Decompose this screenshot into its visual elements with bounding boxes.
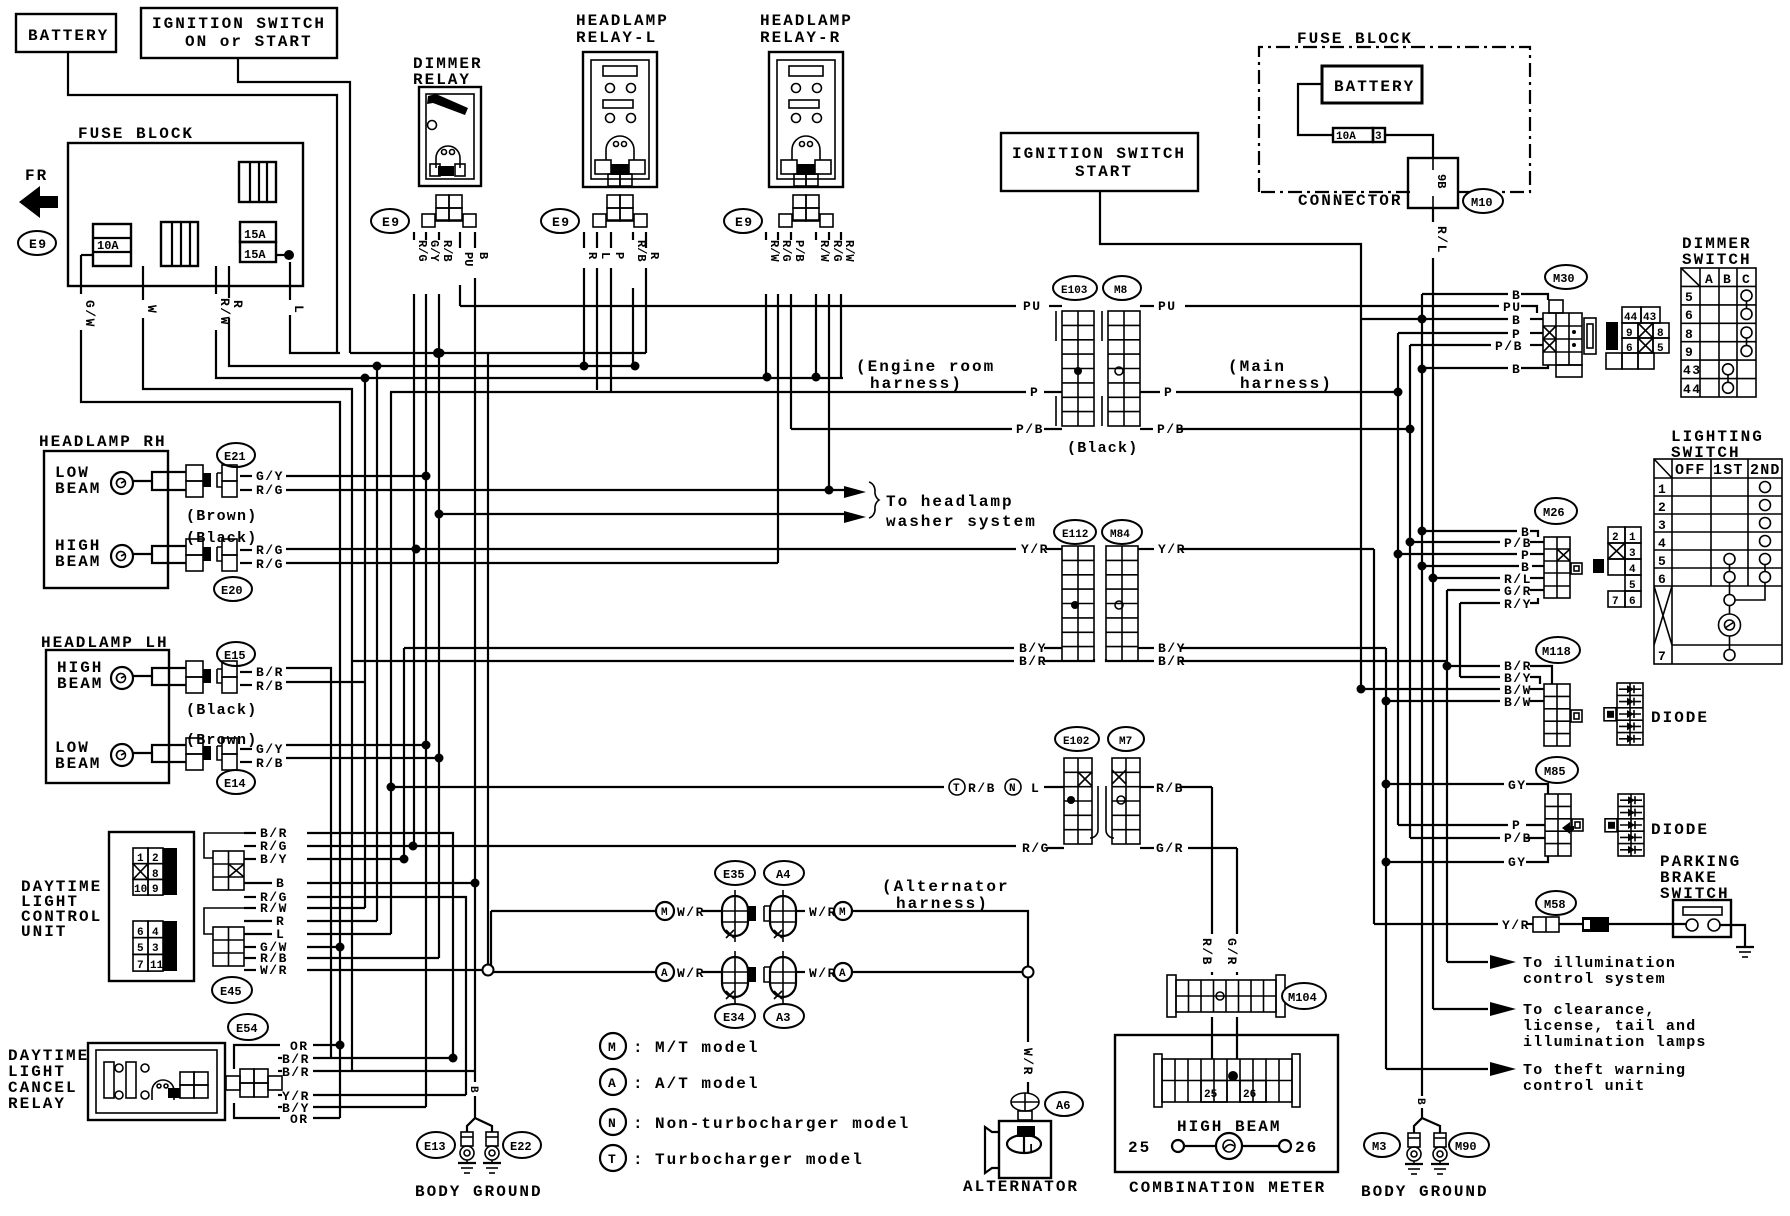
relay-L pin wire R [645,232,647,248]
svg-text:15A: 15A [244,228,266,242]
svg-text:W/R: W/R [809,905,837,920]
svg-text:R/G: R/G [256,557,284,572]
svg-text::: : [633,1115,645,1133]
daytime unit row B/R [307,833,453,1058]
vertical right x1398 [1397,333,1399,825]
svg-text:G/R: G/R [1224,938,1239,966]
connector E9 (relay-L) [541,209,579,233]
svg-text:N: N [608,1116,617,1131]
svg-text:B/W: B/W [1504,695,1532,710]
svg-text:(Brown): (Brown) [186,508,257,525]
ignition switch START box [1001,133,1198,191]
svg-text:P: P [1030,385,1039,400]
unit wire stubs [244,832,256,834]
high beam bulb RH [111,545,133,567]
M118 grid [1544,684,1570,746]
svg-text:L: L [291,305,306,314]
connector M30 [1545,265,1587,289]
svg-text:B/R: B/R [282,1065,310,1080]
wire washer row 2 [439,513,846,515]
svg-text:E45: E45 [220,985,242,999]
svg-text:P: P [612,252,626,259]
relay-L pin wire L [596,232,598,248]
svg-text:M104: M104 [1288,991,1317,1005]
svg-text:43: 43 [1683,363,1702,378]
svg-text:E9: E9 [735,215,754,230]
svg-text:Y/R: Y/R [1021,542,1049,557]
svg-text:E9: E9 [552,215,571,230]
unit pin grid lower [163,921,177,971]
vertical L-E102 [390,392,392,934]
E45 connector grid lower [213,927,244,966]
wire R/B row LH low [286,757,439,759]
svg-text:L: L [1031,781,1040,796]
svg-text:M7: M7 [1119,736,1132,748]
svg-text:N: N [1009,783,1016,795]
wire battery to fuse 10A [1298,84,1333,135]
svg-text:B: B [1723,272,1732,287]
svg-text:R/G: R/G [415,240,429,262]
svg-text:FUSE BLOCK: FUSE BLOCK [78,125,194,143]
svg-text:6: 6 [1658,572,1667,587]
svg-text:7: 7 [1658,649,1667,664]
svg-text:P/B: P/B [1495,339,1523,354]
connector E15 [217,642,255,666]
svg-text:BATTERY: BATTERY [1334,78,1415,96]
svg-text:UNIT: UNIT [21,923,67,941]
svg-text:FUSE BLOCK: FUSE BLOCK [1297,30,1413,48]
svg-text:1ST: 1ST [1713,462,1744,479]
fusible link (hatched) upper [239,162,276,202]
vertical R [376,366,378,921]
svg-text:(Black): (Black) [186,702,257,719]
connector A3 [764,1004,804,1028]
svg-text:9: 9 [1685,345,1694,360]
cancel relay row B/R2 [313,1070,475,1072]
svg-text:M26: M26 [1543,506,1565,520]
svg-text:C: C [1742,272,1751,287]
connector M58 [1536,891,1576,915]
wire G/Y row LH low [286,744,426,746]
wire P/B row E103 [791,428,1012,430]
vertical right x1447 [1446,590,1448,962]
wire G/Y row RH low [286,475,426,477]
diode 2 [1605,794,1644,856]
svg-text:10A: 10A [1336,131,1356,143]
svg-text:To clearance,: To clearance, [1523,1002,1656,1019]
vertical right x1460 [1459,603,1461,677]
SEC8 [8,1014,310,1127]
wire ignition to right [238,58,350,353]
wire B/Y row M118 [1460,676,1500,678]
svg-text:W/R: W/R [1020,1048,1035,1076]
connector M84 [1102,520,1142,544]
wire B/R row LH high [286,668,331,1058]
vertical right x1410 [1409,345,1411,838]
wire to clearance [1433,1008,1488,1010]
svg-text:3: 3 [1375,131,1382,143]
wire fuse G/W [81,254,93,256]
To theft warning arrow [1490,1062,1516,1076]
battery (top-left) [16,14,116,52]
svg-text:IGNITION SWITCH: IGNITION SWITCH [1012,145,1186,163]
connector M8 [1103,276,1141,300]
wire B row M30 [1422,293,1508,295]
fuse 10A 3 [1333,128,1373,142]
relay-R pin wire R/W [765,232,767,240]
svg-text:COMBINATION METER: COMBINATION METER [1129,1179,1326,1197]
To illumination arrow [1490,955,1516,969]
svg-text:25: 25 [1204,1089,1218,1101]
dimmer relay connector cluster [422,195,476,227]
svg-text:RELAY-L: RELAY-L [576,29,657,47]
connector M104 strip [1176,980,1276,1012]
svg-text:OR: OR [290,1112,309,1127]
svg-text:HEADLAMP RH: HEADLAMP RH [39,433,167,451]
svg-text:A: A [1705,272,1714,287]
svg-text:R: R [647,252,661,260]
junction dots [436,349,445,358]
M/T row connectors [722,890,748,942]
svg-text:E54: E54 [236,1022,258,1036]
fusible link (hatched) lower [161,222,198,266]
vertical right x1387 [1385,648,1387,1069]
wire R/B row LH high [286,681,365,683]
svg-text:RELAY: RELAY [8,1095,66,1113]
svg-text:license, tail and: license, tail and [1523,1018,1696,1035]
svg-text:SWITCH: SWITCH [1682,251,1752,269]
wire to theft warning [1386,1068,1488,1070]
svg-text:PU: PU [1158,299,1177,314]
meter connector strip [1162,1059,1292,1102]
relay-R pin wire R/W [815,232,817,240]
vertical R/W [364,378,366,908]
svg-text:B/Y: B/Y [260,852,288,867]
svg-text:R/W: R/W [767,240,781,262]
svg-text:GY: GY [1508,778,1527,793]
svg-text:A: A [839,968,846,980]
svg-text:B/R: B/R [256,665,284,680]
svg-text:P/B: P/B [792,240,806,262]
wire R/G row E102 [307,845,1016,847]
svg-text:Non-turbocharger model: Non-turbocharger model [655,1115,910,1133]
dimmer pin wire G/Y [425,232,427,240]
fuse 10A [93,224,131,266]
svg-text:G/Y: G/Y [427,240,441,262]
svg-text:GY: GY [1508,855,1527,870]
daytime unit row R [307,920,377,922]
wire P/B row M30 [1410,344,1491,346]
wire fuse W [142,266,144,300]
svg-text:9: 9 [152,884,159,896]
svg-text:W/R: W/R [809,966,837,981]
dimmer pin wire R/B [438,232,440,240]
svg-text:E21: E21 [224,450,246,464]
relay-L pin wire P [610,232,612,248]
svg-text:11: 11 [150,960,164,972]
daytime unit row B/Y [307,858,404,860]
svg-text:2ND: 2ND [1750,462,1781,479]
legend M/T model [600,1033,626,1059]
svg-text:10A: 10A [97,239,119,253]
SEC4 [1504,428,1782,664]
combination meter box [1115,1035,1338,1172]
wire fuse R [228,266,230,298]
svg-text:2: 2 [1658,500,1667,515]
alternator connector [1011,1093,1039,1111]
svg-text:M: M [839,907,846,919]
relay-R pin wire R/G [828,232,830,240]
wire B/W row2 M118 [1386,700,1500,702]
connector E20 [214,577,252,601]
wire fuse to connector [1385,135,1433,158]
connector E35 [715,861,755,885]
svg-text:E9: E9 [29,237,48,252]
svg-text:8: 8 [1685,327,1694,342]
svg-text:E35: E35 [723,868,745,882]
wire to illumination [1447,961,1488,963]
high beam bulb LH [111,667,133,689]
connector E14 [217,770,255,794]
cancel relay row B/Y [313,1106,426,1108]
connector E9 (relay-R) [724,209,762,233]
legend Turbocharger model [600,1145,626,1171]
svg-text:M/T model: M/T model [655,1039,759,1057]
cancel relay row OR2 [313,1117,340,1119]
svg-text:E22: E22 [510,1140,532,1154]
SEC2 [1001,30,1530,689]
wire R/G row RH high [286,562,778,564]
svg-text:W/R: W/R [677,905,705,920]
cancel relay row OR [313,1044,340,1046]
svg-text:B/R: B/R [1019,654,1047,669]
svg-text:M84: M84 [1110,529,1130,541]
M26 mid pin grid [1593,559,1604,573]
wire B row2 M30 [1361,318,1508,320]
svg-text:W/R: W/R [677,966,705,981]
diode 1 [1604,683,1643,745]
legend Non-turbocharger model [600,1109,626,1135]
daytime unit row G/W [307,946,340,948]
svg-text:harness): harness) [870,375,963,393]
svg-text:L: L [598,252,612,259]
wire W/R row M [491,910,656,912]
svg-text:BODY GROUND: BODY GROUND [1361,1183,1489,1201]
svg-text:4: 4 [1658,536,1667,551]
connector E9 (fuse block) [18,231,56,255]
switch to ground wire [1720,925,1745,947]
svg-text:To illumination: To illumination [1523,955,1676,972]
svg-text:E103: E103 [1061,285,1088,297]
circle M + W/R left [656,902,674,920]
svg-text:7: 7 [137,960,144,972]
vertical W/R link [490,911,492,972]
connector E34 [715,1004,755,1028]
svg-text:5: 5 [137,943,144,955]
wire R/Y row M26 [1460,602,1500,604]
svg-text:3: 3 [1658,518,1667,533]
ignition switch ON or START [141,8,337,58]
svg-text:26: 26 [1243,1089,1256,1101]
svg-text:6: 6 [1685,308,1694,323]
wire R/G washer row [286,489,846,491]
svg-text:PU: PU [461,252,475,266]
svg-text:25: 25 [1128,1139,1151,1157]
svg-text:M8: M8 [1114,285,1128,297]
svg-text:R/G: R/G [1022,841,1050,856]
legend A/T model [600,1069,626,1095]
svg-text:R/B: R/B [968,781,996,796]
svg-text:7: 7 [1612,596,1619,608]
wire P/B row M85 [1410,837,1500,839]
svg-text:R/B: R/B [1156,781,1184,796]
wire P row M30 [1398,332,1508,334]
low beam bulb LH [111,744,133,766]
svg-text:B: B [1414,1098,1426,1105]
svg-text:A/T model: A/T model [655,1075,759,1093]
svg-text:R/B: R/B [256,756,284,771]
connector M118 [1536,637,1580,663]
svg-text:A: A [608,1076,617,1091]
vertical right x1374 [1373,549,1375,924]
svg-text:M10: M10 [1471,196,1493,210]
svg-text:control system: control system [1523,971,1666,988]
svg-text:3: 3 [152,943,159,955]
connector E21 [217,443,255,467]
M30 connector grid [1543,313,1582,365]
svg-text:FR: FR [25,167,48,185]
svg-text:ALTERNATOR: ALTERNATOR [963,1178,1079,1196]
connector E54 [228,1014,268,1040]
vertical B/Y-E112 [403,648,405,859]
svg-text:R/B: R/B [256,679,284,694]
wire L row E102 [391,786,944,788]
wire P/B row M26 [1410,541,1500,543]
svg-text:G/Y: G/Y [256,469,284,484]
connector E45 [212,977,252,1003]
To clearance arrow [1490,1002,1516,1016]
svg-text:B: B [1512,362,1521,377]
svg-text:A4: A4 [776,868,790,882]
svg-text:harness): harness) [1240,375,1333,393]
fuses 15A 15A [240,222,276,242]
svg-text:B: B [1512,313,1521,328]
svg-text:START: START [1075,163,1133,181]
svg-text:R/W: R/W [817,240,831,262]
svg-text:44: 44 [1683,382,1702,397]
svg-text:R/B: R/B [1199,938,1214,966]
svg-text:(Black): (Black) [1067,440,1138,457]
wire B/W row M118 [1361,688,1500,690]
svg-text:M3: M3 [1372,1140,1386,1154]
relay-R pin wire P/B [790,232,792,240]
relay-R pin wire R/G [777,232,779,240]
svg-text:L: L [1029,1142,1036,1156]
connector E102 [1055,727,1099,751]
svg-text:CONNECTOR: CONNECTOR [1298,192,1402,210]
connector E103 [1053,276,1097,300]
svg-text:R/L: R/L [1434,226,1449,254]
unit pin grid upper [163,848,177,895]
svg-text:15A: 15A [244,248,266,262]
svg-text:P/B: P/B [1016,422,1044,437]
svg-text:M30: M30 [1553,272,1575,286]
svg-text:E112: E112 [1062,529,1088,541]
A/T row connectors [722,951,748,1003]
svg-text:Turbocharger model: Turbocharger model [655,1151,864,1169]
wire Y/R row M58 [1374,923,1498,925]
connector M7 [1108,727,1144,751]
svg-text:R: R [230,300,245,309]
svg-text:E34: E34 [723,1011,745,1025]
svg-text:IGNITION SWITCH: IGNITION SWITCH [152,15,326,33]
SEC3 [1495,235,1756,397]
svg-text:T: T [608,1152,617,1167]
svg-text:HEADLAMP: HEADLAMP [576,12,669,30]
vertical right x1421 [1421,294,1423,1096]
svg-text:B: B [276,876,285,891]
connector M10 [1463,189,1503,213]
svg-text:B: B [467,1086,479,1093]
svg-text:R/G: R/G [830,240,844,262]
alternator [999,1121,1051,1178]
wire B row M26 [1422,530,1517,532]
svg-text:W: W [144,305,159,314]
svg-text:BODY GROUND: BODY GROUND [415,1183,543,1201]
SEC10 [1115,938,1338,1197]
svg-text:9B: 9B [1434,174,1448,188]
svg-text:W/R: W/R [260,963,288,978]
wire G/R row M26 [1447,589,1500,591]
svg-text:6: 6 [1629,596,1636,608]
cancel relay row Y/R [313,1094,466,1096]
svg-text:R/G: R/G [256,483,284,498]
svg-text:control unit: control unit [1523,1078,1645,1095]
svg-text:E9: E9 [382,215,401,230]
svg-text:M: M [661,907,668,919]
relay-R pin wire R/W [840,232,842,240]
connector E9 (dimmer) [371,209,409,233]
svg-text:PU: PU [1023,299,1042,314]
wire R/L row M26 [1433,577,1500,579]
svg-text:M85: M85 [1544,765,1566,779]
svg-text:10: 10 [134,884,147,896]
wire P row M85 [1398,824,1508,826]
svg-text:A6: A6 [1056,1099,1070,1113]
wire fuse R/W [215,266,217,294]
wire GY row2 M85 [1387,861,1504,863]
svg-text:M58: M58 [1544,898,1566,912]
wire GY row M85 [1386,783,1504,785]
svg-text:M: M [608,1040,617,1055]
wire ignition branch y353 [350,352,646,354]
wire B row2 M26 [1422,565,1519,567]
svg-text:G/W: G/W [82,300,97,328]
wire P row M26 [1398,553,1517,555]
svg-text:P: P [1164,385,1173,400]
svg-text::: : [633,1075,645,1093]
svg-text:R: R [585,252,599,260]
E54 connector cluster [240,1069,254,1083]
daytime unit row R/W [307,907,365,909]
svg-text:G/Y: G/Y [256,742,284,757]
wire P row E103 [390,391,1026,393]
wire fuse L [289,262,291,300]
svg-text:R/Y: R/Y [1504,597,1532,612]
svg-text:OFF: OFF [1675,462,1706,479]
daytime unit row R/B [307,957,439,959]
dimmer pin wire R/G [413,232,415,240]
